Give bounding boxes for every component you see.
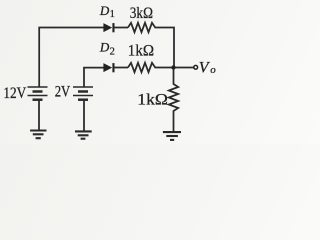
svg-text:1: 1 (110, 9, 115, 20)
svg-text:V: V (199, 59, 211, 76)
svg-text:D: D (99, 39, 110, 54)
svg-text:D: D (99, 3, 110, 18)
svg-text:1kΩ: 1kΩ (128, 42, 154, 60)
svg-text:1kΩ: 1kΩ (137, 90, 168, 108)
svg-text:2V: 2V (55, 83, 71, 100)
svg-text:12V: 12V (3, 85, 26, 102)
svg-text:o: o (210, 64, 216, 76)
svg-text:2: 2 (110, 47, 115, 58)
svg-text:3kΩ: 3kΩ (130, 5, 153, 22)
